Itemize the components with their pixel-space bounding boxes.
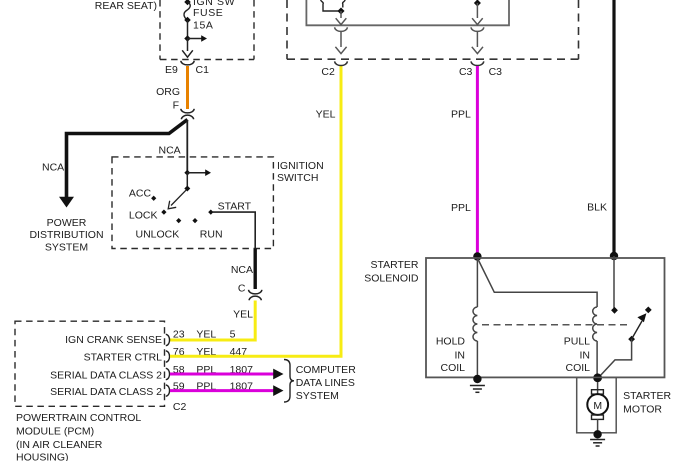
wire BLK [587,0,618,260]
starter motor box [577,377,672,432]
svg-text:MOTOR: MOTOR [623,404,662,416]
PCM pin 59 row SERIAL DATA CLASS 2 [50,381,253,399]
svg-text:(IN AIR CLEANER: (IN AIR CLEANER [16,439,103,451]
PCM pin 76 row STARTER CTRL [84,346,248,364]
fuse (cut off) top center [321,0,345,15]
junction dot solenoid output [593,373,602,382]
starter motor M [587,382,608,438]
linkage dashed line [482,324,631,326]
contact UNLOCK [136,218,182,241]
wire YEL pin 76 to C2 [170,66,341,356]
fuse IGN SW FUSE 15A [184,0,235,32]
svg-text:NCA: NCA [159,145,181,157]
connector C3 [459,61,502,78]
svg-text:HOUSING): HOUSING) [16,452,69,461]
label POWER DISTRIBUTION SYSTEM [29,217,103,254]
connector E9 / C1 [165,61,209,76]
svg-text:SOLENOID: SOLENOID [364,273,419,285]
wire PPL C3 to starter solenoid [451,66,482,261]
svg-text:FUSE: FUSE [193,7,223,19]
svg-text:LOCK: LOCK [129,210,158,222]
contact START [208,201,251,215]
svg-text:STARTER: STARTER [370,259,418,271]
wire C2 drop with arrows and connector arcs [335,11,348,54]
contact RUN [192,218,222,241]
wire PPL pin 59 [170,385,284,396]
svg-text:F: F [173,100,179,112]
computer data lines system brace and label [284,360,356,403]
svg-text:POWERTRAIN CONTROL: POWERTRAIN CONTROL [16,412,141,424]
ground hold coil [470,386,485,393]
fuse block box (under rear seat, dashed) [160,0,254,60]
hold-in coil [436,258,482,383]
svg-text:NCA: NCA [42,162,64,174]
PCM pin 58 row SERIAL DATA CLASS 2 [50,364,253,382]
svg-text:23: 23 [173,329,185,341]
svg-text:IN: IN [580,350,591,362]
label REAR SEAT) [95,0,157,12]
starter solenoid box [364,258,664,377]
wire fuse block output with down arrow [182,39,193,58]
svg-text:POWER: POWER [47,217,87,229]
contact LOCK [129,209,167,221]
svg-text:STARTER: STARTER [623,390,671,402]
svg-text:PULL: PULL [564,336,590,348]
svg-text:PPL: PPL [451,109,471,121]
inner junction block box (solid) [306,0,509,25]
svg-text:IGNITION: IGNITION [277,160,324,172]
solenoid moving arm [599,313,646,377]
svg-text:15A: 15A [193,20,213,32]
wire START to connector C (NCA) [212,212,255,294]
svg-text:SERIAL DATA CLASS 2: SERIAL DATA CLASS 2 [50,386,162,398]
svg-text:UNLOCK: UNLOCK [136,229,180,241]
svg-text:YEL: YEL [316,109,336,121]
svg-text:E9: E9 [165,64,178,76]
PCM pin 23 row IGN CRANK SENSE [65,329,235,347]
wire YEL C2 label [316,109,336,121]
ignition switch junction with right arrow [184,169,211,176]
svg-text:HOLD: HOLD [436,336,466,348]
svg-text:RUN: RUN [200,229,223,241]
svg-text:SYSTEM: SYSTEM [45,242,88,254]
svg-text:NCA: NCA [231,264,253,276]
svg-text:C1: C1 [196,64,210,76]
svg-text:DISTRIBUTION: DISTRIBUTION [29,229,103,241]
label POWERTRAIN CONTROL MODULE [16,412,141,461]
wire ORG [156,66,187,112]
svg-text:M: M [593,400,602,412]
svg-text:YEL: YEL [233,309,253,321]
PCM box (dashed) [15,321,165,406]
svg-text:SWITCH: SWITCH [277,172,318,184]
svg-text:PPL: PPL [451,202,471,214]
svg-text:COIL: COIL [565,362,590,374]
svg-text:C: C [238,283,246,295]
connector F [181,109,194,120]
pull-in coil [477,258,597,377]
svg-text:REAR SEAT): REAR SEAT) [95,0,157,12]
wire YEL connector C to PCM pin 23 [170,301,255,341]
branch C3 drop from junction block [471,0,484,54]
svg-text:SERIAL DATA CLASS 2: SERIAL DATA CLASS 2 [50,370,162,382]
svg-text:IGN CRANK SENSE: IGN CRANK SENSE [65,334,162,346]
svg-text:ORG: ORG [156,86,180,98]
contact ACC [129,187,156,201]
wire NCA thick to power distribution [42,120,188,208]
ground starter motor [590,440,605,447]
svg-text:SYSTEM: SYSTEM [296,390,339,402]
connector C [249,290,262,301]
ignition switch box (dashed) [112,157,324,249]
ignition switch arm [168,173,190,209]
solenoid contact BLK side [611,256,618,314]
svg-text:C3: C3 [489,66,503,78]
svg-text:STARTER CTRL: STARTER CTRL [84,352,163,364]
svg-text:COIL: COIL [440,362,465,374]
svg-text:BLK: BLK [587,202,607,214]
top harness dashed box [287,0,579,59]
label C2 (PCM connector) [173,401,187,413]
svg-text:DATA LINES: DATA LINES [296,377,355,389]
svg-text:START: START [218,201,252,213]
svg-text:ACC: ACC [129,187,152,199]
svg-text:C2: C2 [173,401,187,413]
svg-text:IN: IN [455,350,466,362]
solenoid fixed contact [645,307,652,314]
svg-text:YEL: YEL [196,329,216,341]
svg-text:COMPUTER: COMPUTER [296,364,357,376]
wire fuse to junction + branch arrow [184,20,207,42]
wire NCA into ignition switch [159,120,188,173]
svg-text:5: 5 [230,329,236,341]
wire PPL pin 58 [170,369,284,380]
svg-text:MODULE (PCM): MODULE (PCM) [16,426,94,438]
svg-text:C2: C2 [321,66,335,78]
connector C2 [321,61,347,78]
svg-text:C3: C3 [459,66,473,78]
